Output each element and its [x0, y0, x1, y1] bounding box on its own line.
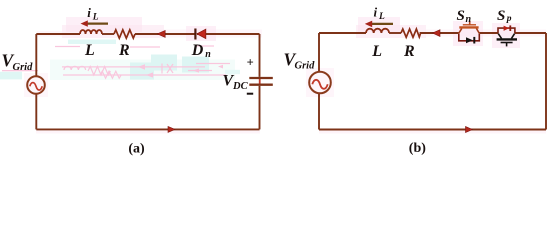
- svg-text:L: L: [84, 42, 95, 59]
- arrowhead on bottom wire (a): [168, 126, 175, 132]
- svg-text:(a): (a): [128, 141, 145, 156]
- wire top (a): [36, 33, 259, 35]
- label iL (a): [87, 5, 99, 23]
- wire top (b): [319, 32, 546, 34]
- svg-text:R: R: [118, 42, 130, 59]
- capacitor C (V_DC): [249, 78, 272, 85]
- svg-text:Grid: Grid: [295, 61, 316, 72]
- svg-text:L: L: [378, 12, 385, 22]
- svg-text:(b): (b): [409, 141, 426, 156]
- wire left (a): [35, 34, 37, 129]
- resistor R (b): [401, 29, 421, 37]
- source V_Grid (b): [309, 72, 331, 94]
- svg-text:DC: DC: [232, 81, 249, 92]
- label Sp: [497, 8, 512, 24]
- label − (capacitor polarity): [247, 93, 253, 95]
- wire bottom (b): [319, 129, 546, 131]
- arrowhead on top wire (b): [433, 30, 441, 37]
- diode Dn: [195, 29, 205, 40]
- svg-text:D: D: [191, 42, 204, 59]
- resistor R (a): [114, 30, 135, 38]
- arrowhead on bottom wire (b): [466, 127, 473, 133]
- svg-text:n: n: [205, 49, 211, 60]
- antiparallel diode of Sn (black, below wire): [459, 34, 480, 44]
- svg-text:n: n: [466, 14, 472, 25]
- svg-text:S: S: [497, 8, 505, 24]
- source V_Grid (a): [27, 76, 45, 94]
- label iL (b): [374, 5, 386, 23]
- wire right (a): [259, 34, 261, 129]
- inductor L (a): [80, 30, 102, 34]
- switch Sn (IGBT above wire): [459, 21, 480, 34]
- label Sn: [457, 8, 472, 25]
- label V_Grid (b): [284, 49, 316, 71]
- label V_DC: [223, 72, 249, 92]
- arrowhead on top wire (a): [157, 30, 165, 37]
- antiparallel diode of Sp (red, above wire): [498, 25, 515, 33]
- svg-text:R: R: [403, 43, 415, 60]
- inductor L (b): [366, 29, 389, 33]
- svg-text:p: p: [506, 14, 512, 24]
- svg-text:+: +: [247, 56, 254, 70]
- svg-text:Grid: Grid: [13, 62, 34, 73]
- switch Sp (IGBT below wire): [497, 34, 517, 47]
- current arrow iL (b): [365, 21, 393, 28]
- svg-text:S: S: [457, 8, 465, 24]
- label V_Grid (a): [2, 51, 34, 73]
- svg-text:i: i: [374, 5, 378, 20]
- svg-text:L: L: [371, 43, 382, 60]
- svg-text:i: i: [87, 5, 91, 20]
- wire bottom (a): [36, 128, 259, 130]
- label Dn: [191, 42, 212, 60]
- current arrow iL (a): [81, 20, 109, 26]
- svg-text:L: L: [92, 12, 99, 22]
- wire left (b): [318, 33, 320, 130]
- wire right (b): [545, 33, 547, 130]
